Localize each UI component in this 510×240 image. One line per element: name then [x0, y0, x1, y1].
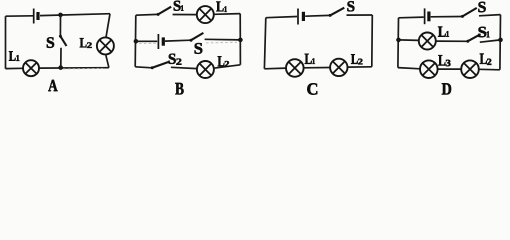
label L2	[80, 38, 92, 48]
switch S1	[466, 34, 480, 43]
wire	[371, 15, 374, 67]
junction	[396, 38, 401, 43]
label L1	[438, 27, 449, 37]
battery B cell	[158, 34, 163, 49]
wire	[165, 39, 191, 42]
wire	[60, 48, 62, 68]
wire	[266, 17, 297, 18]
label L2	[480, 54, 492, 65]
label L1	[216, 2, 227, 12]
switch S	[329, 8, 345, 17]
wire	[397, 18, 400, 68]
wire	[480, 40, 501, 42]
label B	[175, 83, 183, 95]
wire	[347, 14, 373, 16]
switch S	[190, 33, 204, 42]
switch S2	[151, 62, 169, 69]
wire	[304, 67, 331, 69]
label S	[478, 2, 485, 12]
label S1	[478, 27, 489, 38]
switch S1	[157, 7, 172, 16]
label S	[47, 37, 54, 48]
wire	[40, 14, 110, 16]
wire	[214, 13, 240, 16]
wire	[305, 14, 330, 17]
junction	[58, 65, 63, 70]
wire	[5, 16, 7, 69]
lamp L1	[197, 6, 214, 23]
wire	[347, 66, 371, 68]
wire	[399, 39, 419, 42]
wire	[264, 18, 265, 69]
lamp L2	[461, 60, 479, 78]
wire	[436, 40, 468, 42]
wire	[134, 15, 137, 67]
label L2	[218, 56, 229, 66]
battery C cell	[298, 9, 303, 25]
wire	[6, 15, 34, 17]
lamp L1	[419, 33, 436, 50]
wire	[398, 68, 420, 69]
wire	[479, 15, 501, 16]
label L2	[351, 54, 362, 64]
wire	[264, 67, 286, 70]
lamp L1	[286, 59, 304, 77]
label S1	[174, 1, 184, 11]
battery A cell	[34, 9, 38, 24]
wire	[399, 16, 424, 19]
label L3	[438, 55, 450, 66]
wire	[431, 16, 462, 18]
switch S	[59, 35, 67, 46]
battery D cell	[425, 8, 429, 24]
wire	[239, 14, 241, 65]
switch S	[461, 8, 477, 18]
label L1	[305, 54, 315, 64]
label S	[195, 43, 203, 54]
wire	[136, 40, 157, 42]
lamp L1	[23, 60, 39, 76]
label S2	[169, 54, 182, 65]
wire	[214, 65, 241, 68]
wire	[171, 67, 197, 68]
wire	[6, 67, 24, 69]
wire	[106, 54, 109, 67]
wire	[205, 38, 241, 41]
wire	[479, 68, 500, 71]
wire	[59, 15, 61, 36]
label A	[48, 80, 57, 91]
lamp L2	[97, 37, 114, 54]
wire	[135, 67, 152, 68]
wire	[39, 67, 109, 69]
scan ghost artifacts	[63, 42, 237, 69]
wire	[173, 14, 197, 16]
label D	[442, 83, 451, 94]
label C	[307, 83, 317, 94]
junction	[58, 13, 63, 18]
label S	[347, 1, 354, 11]
label L1	[9, 51, 19, 61]
lamp L3	[420, 60, 438, 78]
junction	[134, 39, 139, 44]
wire	[438, 68, 462, 70]
junction	[498, 38, 503, 43]
lamp L2	[330, 59, 347, 76]
wire	[499, 15, 502, 70]
wire	[136, 13, 158, 16]
junction	[238, 38, 243, 43]
wire	[106, 14, 110, 38]
lamp L2	[197, 61, 214, 78]
